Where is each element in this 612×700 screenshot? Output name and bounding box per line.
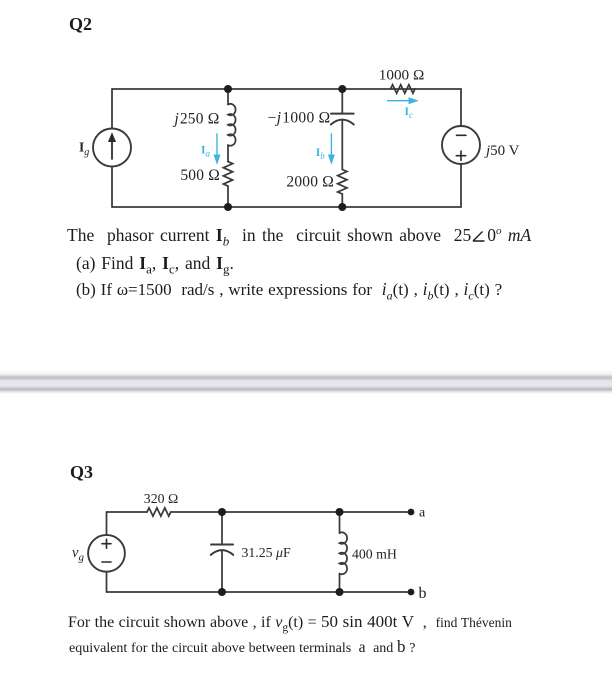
wire capacitor branch top	[341, 89, 343, 113]
wire capacitor branch Q3 top	[221, 512, 223, 544]
divider band	[0, 370, 612, 394]
resistor 1000 ohm	[391, 85, 415, 93]
wire below voltage source	[460, 164, 462, 207]
node dot Q3 ind bottom	[336, 588, 344, 596]
wire Q3 top right of resistor	[171, 511, 409, 513]
svg-text:j50 V: j50 V	[484, 143, 520, 159]
wire inductor branch Q3 top	[339, 512, 341, 533]
heading Q3	[70, 462, 93, 483]
wire below capacitor Q3	[221, 551, 223, 593]
wire below capacitor	[341, 120, 343, 170]
svg-text:a: a	[419, 506, 426, 521]
problem text Q2 line 3	[76, 279, 502, 304]
problem text Q2 line 2	[76, 253, 234, 278]
node dot bottom capacitor	[338, 203, 346, 211]
capacitor -j1000	[331, 114, 354, 125]
svg-text:Ib: Ib	[316, 147, 325, 161]
resistor 320 ohm	[147, 508, 171, 516]
voltage source vg	[88, 535, 125, 572]
svg-text:Ig: Ig	[79, 140, 89, 159]
terminal a	[408, 509, 415, 516]
wire Q2 bottom	[112, 206, 461, 208]
voltage source j50	[442, 126, 480, 164]
svg-text:320 Ω: 320 Ω	[144, 491, 178, 506]
wire below 2000 ohm	[341, 194, 343, 207]
heading Q2	[69, 14, 92, 35]
current source Ig	[93, 129, 131, 167]
wire Q2 top	[112, 88, 461, 90]
current arrow Ib	[329, 134, 335, 163]
wire Q3 left top	[106, 512, 108, 535]
wire Q3 left bottom	[106, 572, 108, 592]
current arrow Ia	[214, 134, 220, 163]
inductor 400 mH	[340, 532, 348, 574]
wire Q3 bottom	[107, 591, 409, 593]
wire Q3 top	[107, 511, 148, 513]
node dot top capacitor	[338, 85, 346, 93]
node dot Q3 ind top	[336, 508, 344, 516]
node dot Q3 cap bottom	[218, 588, 226, 596]
resistor 2000 ohm	[338, 170, 347, 195]
svg-text:1000 Ω: 1000 Ω	[379, 67, 424, 84]
svg-text:31.25 μF: 31.25 μF	[242, 545, 291, 560]
inductor j250	[228, 104, 236, 146]
svg-text:2000 Ω: 2000 Ω	[286, 173, 334, 190]
svg-text:400 mH: 400 mH	[352, 547, 397, 562]
svg-text:−j1000 Ω: −j1000 Ω	[268, 109, 331, 126]
capacitor 31.25 uF	[211, 545, 233, 555]
problem text Q2 line 1	[67, 225, 531, 250]
node dot Q3 cap top	[218, 508, 226, 516]
wire between inductor and 500 ohm	[227, 145, 229, 162]
svg-text:Ia: Ia	[201, 145, 210, 159]
wire Q2 left bottom	[111, 167, 113, 208]
wire inductor branch top	[227, 89, 229, 105]
resistor 500 ohm	[223, 162, 232, 187]
svg-text:j250 Ω: j250 Ω	[172, 110, 219, 127]
wire Q2 right vertical	[460, 89, 462, 126]
svg-text:500 Ω: 500 Ω	[180, 167, 220, 184]
current arrow Ic	[388, 98, 418, 104]
wire below 500 ohm	[227, 186, 229, 207]
problem text Q3 line 1	[68, 612, 512, 634]
wire Q2 left top	[111, 89, 113, 129]
wire below inductor Q3	[339, 574, 341, 592]
svg-text:vg: vg	[72, 545, 84, 564]
svg-text:b: b	[419, 585, 427, 602]
svg-text:Ic: Ic	[405, 106, 413, 120]
problem text Q3 line 2	[69, 637, 416, 657]
node dot top inductor	[224, 85, 232, 93]
node dot bottom inductor	[224, 203, 232, 211]
terminal b	[408, 589, 415, 596]
